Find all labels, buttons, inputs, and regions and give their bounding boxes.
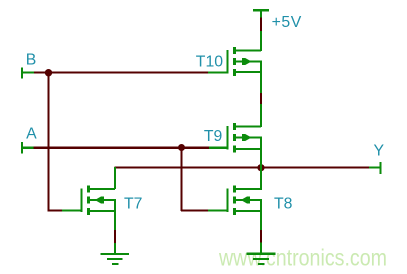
svg-text:www.cntronics.com: www.cntronics.com bbox=[218, 245, 387, 271]
svg-text:T7: T7 bbox=[124, 195, 142, 212]
svg-text:T10: T10 bbox=[196, 53, 223, 70]
svg-text:A: A bbox=[26, 126, 37, 143]
svg-text:B: B bbox=[26, 52, 37, 69]
svg-text:T8: T8 bbox=[274, 196, 293, 213]
svg-text:T9: T9 bbox=[204, 128, 223, 145]
svg-text:Y: Y bbox=[374, 142, 385, 159]
svg-text:+5V: +5V bbox=[272, 14, 302, 31]
